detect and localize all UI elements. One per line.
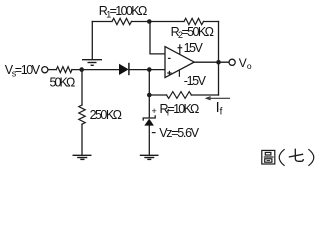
svg-text:If: If <box>216 100 223 118</box>
label zener minus <box>152 132 156 134</box>
wire top rail middle segment <box>132 21 185 23</box>
wire top rail right segment <box>204 21 219 23</box>
wire op-amp output <box>194 61 229 63</box>
wire left drop to ground <box>91 22 93 60</box>
svg-text:Vz=5.6V: Vz=5.6V <box>159 126 200 140</box>
ground (bottom left, 250K) <box>73 155 92 159</box>
wire right rail (R2 to feedback corner) <box>218 22 220 96</box>
resistor 250K <box>79 105 85 124</box>
ground (top, R1 left) <box>82 60 102 66</box>
svg-text:Vs=10V: Vs=10V <box>5 63 41 78</box>
caption figure 7: char 七 <box>289 149 304 162</box>
op-amp plus sign <box>167 71 171 75</box>
terminal Vo <box>229 59 235 65</box>
resistor Rf <box>166 92 191 99</box>
svg-text:+: + <box>152 106 157 116</box>
diode D1 <box>119 63 129 75</box>
wire Rf to zener node <box>149 94 166 96</box>
caption figure 7: char 圖 <box>262 150 275 164</box>
ground (bottom middle, zener) <box>140 155 159 159</box>
caption figure 7: open paren <box>279 149 284 166</box>
wire 50K to diode <box>72 69 119 71</box>
wire 250K top stub <box>81 70 83 105</box>
zener diode Vz <box>143 115 155 125</box>
wire feedback corner to Rf <box>191 94 218 96</box>
svg-text:R1=100KΩ: R1=100KΩ <box>99 4 148 19</box>
op-amp minus sign <box>168 57 171 59</box>
junction node (diode/zener/plus input) <box>147 67 152 72</box>
resistor R1 <box>112 18 131 24</box>
wire diode to op-amp plus input <box>129 69 165 71</box>
junction node (output) <box>216 60 221 65</box>
svg-text:Vo: Vo <box>239 56 252 71</box>
wire zener bottom stub <box>148 126 150 155</box>
caption figure 7: close paren <box>308 149 313 166</box>
svg-text:R2=50KΩ: R2=50KΩ <box>171 25 214 40</box>
wire 250K bottom stub <box>81 124 83 155</box>
wire top rail left segment <box>92 21 112 23</box>
current arrow If <box>206 97 230 100</box>
svg-text:15V: 15V <box>184 41 204 55</box>
junction node (Rf/zener) <box>147 93 152 98</box>
wire source to 50K <box>48 69 56 71</box>
svg-text:-15V: -15V <box>184 74 207 88</box>
op-amp V- power stub <box>178 70 180 77</box>
terminal Vs <box>42 67 48 73</box>
op-amp V+ power stub <box>178 44 183 54</box>
svg-text:250KΩ: 250KΩ <box>90 108 122 122</box>
op-amp U1 <box>165 47 194 78</box>
svg-text:50KΩ: 50KΩ <box>50 76 76 90</box>
resistor 50K <box>56 67 72 73</box>
wire zener top stub <box>148 70 150 118</box>
junction node (50K/250K) <box>79 67 84 72</box>
resistor R2 <box>184 18 203 24</box>
svg-text:Rf=10KΩ: Rf=10KΩ <box>160 102 200 117</box>
junction node (R1/R2, inverting) <box>147 19 152 24</box>
wire inverting-input drop <box>150 22 165 54</box>
